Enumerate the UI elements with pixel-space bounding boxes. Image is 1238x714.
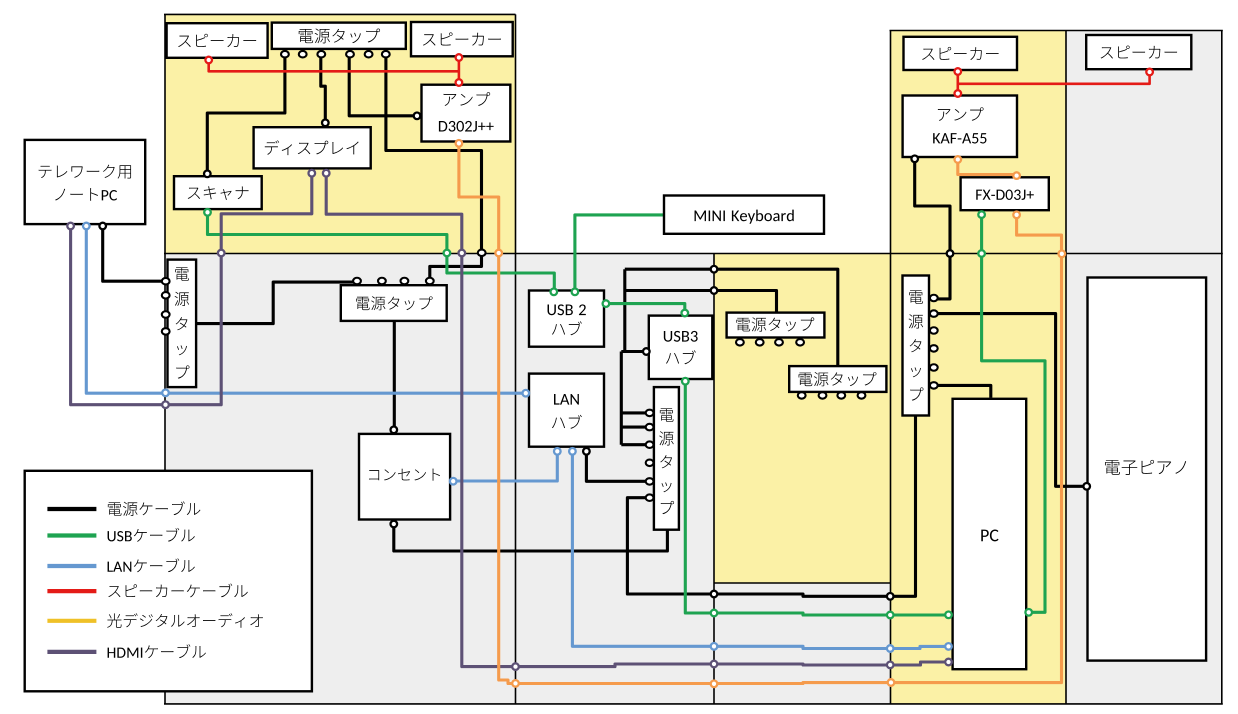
room: top-left yellow: [165, 14, 516, 253]
wire: LAN hub power to tap4 nub5: [586, 450, 650, 481]
room: right yellow: [891, 31, 1067, 704]
box: speaker top-left: [167, 23, 268, 58]
nubs: power tap6 bottom: [736, 339, 744, 346]
legend item LANケーブル: [47, 564, 96, 568]
wire: USB FX-D03J+ to PC right side: [982, 214, 1045, 612]
wire: LAN hub to outlet: [454, 451, 557, 482]
room: gray under middle yellow: [714, 583, 891, 704]
room: right gray: [1066, 31, 1222, 704]
wire: speaker cable gray speaker to amp KAF-A55 feed: [958, 73, 1150, 84]
wire: tap2 right side to tap3 nub1: [196, 280, 357, 324]
connector: LAN hub left/bottom x3: [523, 390, 530, 397]
connector: display bottom HDMI x2: [309, 170, 316, 177]
wire: tap5 nub2 to electric piano: [934, 314, 1086, 487]
connector: KAF-A55 bottom power/optical: [911, 156, 918, 163]
legend item HDMIケーブル: [47, 650, 96, 654]
box: power tap4 (vertical, middle gray room): [654, 387, 679, 530]
box: speaker (right gray room): [1086, 35, 1191, 69]
room: middle gray: [516, 254, 714, 704]
box: power tap2 (vertical, left gray room): [168, 260, 197, 388]
room boundary lines: [164, 14, 166, 704]
wire: power tap1 nub1 to scanner: [207, 56, 285, 173]
connector circles: red speaker cable: [205, 57, 212, 64]
box: amp D302J++: [422, 85, 511, 142]
connector: laptop bottom HDMI/LAN/power: [67, 223, 74, 230]
box: scanner: [174, 176, 262, 209]
connector: USB2 hub top x2, right: [551, 289, 558, 296]
nubs: power tap7 bottom: [798, 392, 806, 399]
wire: power tap1 nub3 to display: [321, 56, 326, 122]
legend item スピーカーケーブル: [47, 589, 96, 593]
wire: speaker cable yellow3 speaker to amp KAF-A55: [956, 72, 959, 93]
wall crossings x=890.5: [887, 593, 894, 600]
box: power tap5 (vertical, right yellow room): [903, 276, 930, 416]
wire: power tap1 nub6 to power tap3 (crosses wall): [386, 56, 482, 279]
box: FX-D03J+: [961, 177, 1049, 210]
connector: piano power: [1083, 483, 1090, 490]
wire: outlet bottom to power tap4 bottom: [394, 524, 668, 551]
connector: PC left green/blue/purple, right green: [945, 612, 952, 619]
connector: outlet top/right/bottom: [391, 427, 398, 434]
wire: optical audio amp KAF-A55 to FX-D03J+ top: [958, 159, 1017, 178]
box: electric piano: [1088, 278, 1207, 661]
wire: HDMI laptop to display: [71, 173, 312, 405]
legend box: [25, 471, 312, 692]
box: USB2 hub: [529, 291, 604, 347]
wire: speaker cable left speaker to amp D302J++: [209, 61, 459, 72]
nubs: power tap4 left side: [646, 410, 654, 417]
box: speaker top-right of yellow room: [411, 22, 513, 56]
wire: HDMI display to PC (long bottom run): [326, 173, 947, 667]
box: USB3 hub: [649, 316, 713, 379]
connector: scanner top power: [204, 171, 211, 178]
box: power tap3 (left gray room horizontal): [341, 285, 447, 321]
wire: bus to USB3 hub power: [621, 350, 646, 353]
wire: bus to middle tap7: [625, 269, 838, 366]
wire: USB3 hub to PC (long bottom run): [685, 380, 947, 615]
room: middle yellow: [714, 254, 891, 584]
box: power tap6 (middle yellow): [727, 313, 825, 338]
wire: tap5 nub6 to PC power: [934, 385, 991, 397]
wire: bus to tap4 nub2: [621, 426, 650, 429]
wall crossings x=713.5: [711, 266, 718, 273]
wire: laptop power to tap2 nub1: [103, 227, 164, 281]
connector: FX-D03J+ top optical, bottom USB+optical: [1013, 172, 1020, 179]
wire: USB scanner to USB2 hub: [208, 213, 555, 291]
box: amp KAF-A55: [903, 96, 1017, 158]
wire: power tap4 nub6 to right tap5 bottom (long run): [627, 416, 915, 597]
wire: LAN laptop to LAN hub: [86, 227, 527, 393]
box: PC: [953, 399, 1027, 669]
box: speaker (right yellow room): [904, 37, 1018, 70]
wire: optical audio amp D302J++ to FX-D03J+ (long run): [459, 143, 1062, 684]
wall crossings left wall: [162, 390, 169, 397]
connector: scanner bottom USB: [204, 209, 211, 216]
wall crossings on yellow1 bottom: [218, 250, 225, 257]
wire: speaker cable right speaker down to amp D302J++ top: [458, 58, 461, 82]
connector: display top power: [322, 120, 329, 127]
nubs: power tap5 right side: [930, 295, 938, 302]
wire: bus to middle tap6: [625, 291, 777, 313]
wire: USB2 hub to USB3 hub: [605, 304, 685, 313]
wall crossings x=515.5: [512, 663, 519, 670]
nubs: power tap2 left side: [162, 278, 170, 285]
nubs: power tap3 top: [353, 278, 361, 285]
connector: USB3 hub top/left/bottom: [682, 310, 689, 317]
wire: tap3 bottom to outlet (konsento): [393, 321, 396, 431]
box: power tap7 (middle yellow lower): [789, 366, 886, 392]
wire: LAN hub to PC (long bottom run): [572, 451, 947, 649]
legend item 電源ケーブル: [47, 507, 96, 511]
box: power tap1 (top yellow room): [272, 23, 406, 49]
wire: power tap1 nub4 to amp D302J++: [349, 56, 419, 116]
legend item USBケーブル: [47, 533, 96, 537]
box: LAN hub: [529, 374, 604, 447]
wire: power bus vertical (tap4 nubs to yellow2 taps and USB3): [623, 269, 626, 351]
box: MINI Keyboard: [664, 196, 824, 234]
wall crossings on middle walls y=253.5 right part: [947, 250, 954, 257]
connector: amp D302J++ bottom optical: [456, 140, 463, 147]
connector: amp D302J++ left power: [414, 113, 421, 120]
box: telework laptop: [25, 140, 146, 224]
nubs: power tap1 bottom: [281, 51, 289, 58]
wire: power bus lower segment: [620, 352, 623, 445]
wire: bus to tap4 nub1: [621, 411, 650, 414]
box: display: [254, 127, 371, 168]
wire: amp KAF-A55 power to tap5 nub1: [915, 159, 950, 299]
box: outlet (konsento): [359, 434, 450, 520]
wire: bus to tap4 nub3: [621, 443, 650, 446]
room: left gray: [165, 254, 516, 704]
wire: USB MINI Keyboard to USB2 hub: [575, 215, 665, 291]
legend item 光デジタルオーディオ: [47, 619, 96, 623]
